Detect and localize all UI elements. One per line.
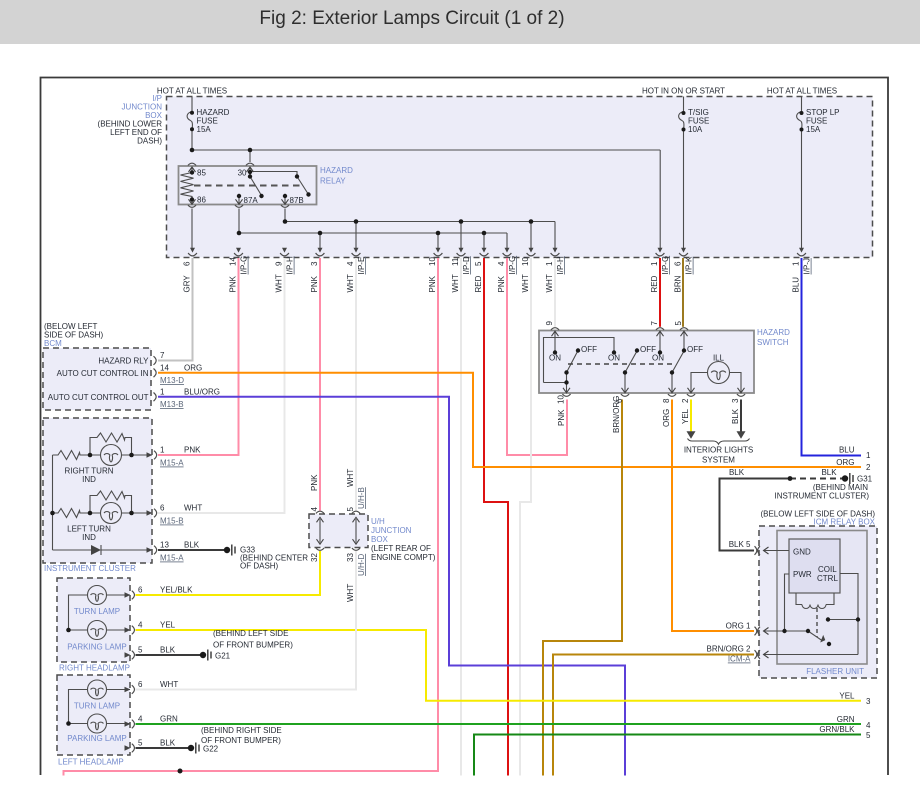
svg-text:OF DASH): OF DASH) bbox=[240, 562, 279, 571]
svg-text:6: 6 bbox=[138, 680, 143, 689]
svg-text:GRN: GRN bbox=[837, 715, 855, 724]
svg-text:6: 6 bbox=[160, 504, 165, 513]
svg-text:WHT: WHT bbox=[545, 274, 554, 292]
svg-text:HAZARD: HAZARD bbox=[320, 166, 353, 175]
svg-text:PARKING LAMP: PARKING LAMP bbox=[67, 734, 126, 743]
svg-text:1: 1 bbox=[160, 446, 165, 455]
svg-text:BLU: BLU bbox=[792, 277, 801, 293]
svg-text:BLK: BLK bbox=[184, 541, 200, 550]
svg-text:5: 5 bbox=[866, 731, 871, 740]
svg-text:GRN/BLK: GRN/BLK bbox=[819, 725, 855, 734]
svg-text:ILL: ILL bbox=[713, 354, 725, 363]
svg-text:85: 85 bbox=[197, 169, 206, 178]
svg-text:6: 6 bbox=[183, 261, 192, 266]
svg-text:I/P-E: I/P-E bbox=[357, 257, 366, 275]
svg-text:PNK: PNK bbox=[497, 275, 506, 292]
svg-text:15A: 15A bbox=[806, 125, 821, 134]
svg-text:RELAY: RELAY bbox=[320, 177, 346, 186]
svg-text:GND: GND bbox=[793, 548, 811, 557]
svg-text:LEFT HEADLAMP: LEFT HEADLAMP bbox=[58, 758, 124, 767]
svg-text:M15-B: M15-B bbox=[160, 517, 184, 526]
svg-text:ORG: ORG bbox=[836, 458, 854, 467]
svg-text:BCM: BCM bbox=[44, 339, 62, 348]
svg-text:10: 10 bbox=[557, 395, 566, 404]
svg-text:ORG 1: ORG 1 bbox=[726, 622, 751, 631]
svg-text:ENGINE COMPT): ENGINE COMPT) bbox=[371, 553, 436, 562]
svg-text:ORG: ORG bbox=[662, 409, 671, 427]
svg-text:WHT: WHT bbox=[521, 274, 530, 292]
svg-text:I/P-D: I/P-D bbox=[462, 256, 471, 274]
svg-text:6: 6 bbox=[138, 586, 143, 595]
svg-text:I/P-K: I/P-K bbox=[685, 256, 694, 274]
svg-text:AUTO CUT CONTROL OUT: AUTO CUT CONTROL OUT bbox=[48, 393, 149, 402]
svg-text:BOX: BOX bbox=[371, 535, 389, 544]
svg-text:HAZARD RLY: HAZARD RLY bbox=[98, 357, 149, 366]
svg-text:ON: ON bbox=[652, 354, 664, 363]
svg-text:I/P-H: I/P-H bbox=[286, 256, 295, 274]
svg-text:BLU: BLU bbox=[839, 446, 855, 455]
svg-text:WHT: WHT bbox=[346, 274, 355, 292]
svg-text:GRN: GRN bbox=[160, 715, 178, 724]
svg-text:OF FRONT BUMPER): OF FRONT BUMPER) bbox=[213, 641, 293, 650]
svg-text:GRY: GRY bbox=[183, 275, 192, 293]
svg-text:WHT: WHT bbox=[184, 504, 202, 513]
svg-text:3: 3 bbox=[310, 261, 319, 266]
svg-text:U/H-B: U/H-B bbox=[357, 487, 366, 509]
svg-text:8: 8 bbox=[662, 398, 671, 403]
svg-text:U/H-D: U/H-D bbox=[357, 554, 366, 576]
svg-text:WHT: WHT bbox=[275, 274, 284, 292]
svg-text:4: 4 bbox=[497, 261, 506, 266]
svg-text:COIL: COIL bbox=[818, 565, 837, 574]
svg-text:DASH): DASH) bbox=[137, 137, 162, 146]
svg-text:(BEHIND RIGHT SIDE: (BEHIND RIGHT SIDE bbox=[201, 726, 282, 735]
svg-text:5: 5 bbox=[474, 261, 483, 266]
svg-text:ICM-A: ICM-A bbox=[728, 655, 751, 664]
svg-text:5: 5 bbox=[138, 739, 143, 748]
svg-text:1: 1 bbox=[792, 261, 801, 266]
svg-text:BLK: BLK bbox=[821, 468, 837, 477]
svg-text:I/P-J: I/P-J bbox=[803, 258, 812, 274]
svg-text:5: 5 bbox=[674, 321, 683, 326]
svg-text:BRN/ORG 2: BRN/ORG 2 bbox=[706, 645, 751, 654]
svg-text:5: 5 bbox=[138, 646, 143, 655]
svg-text:PNK: PNK bbox=[184, 446, 201, 455]
svg-text:HOT AT ALL TIMES: HOT AT ALL TIMES bbox=[157, 87, 227, 96]
svg-text:INTERIOR LIGHTS: INTERIOR LIGHTS bbox=[684, 446, 753, 455]
svg-text:11: 11 bbox=[451, 257, 460, 266]
svg-text:BLK: BLK bbox=[160, 739, 176, 748]
svg-text:RED: RED bbox=[474, 275, 483, 292]
svg-text:TURN LAMP: TURN LAMP bbox=[74, 607, 120, 616]
svg-text:CTRL: CTRL bbox=[817, 574, 838, 583]
svg-text:BLK: BLK bbox=[160, 646, 176, 655]
svg-text:M15-A: M15-A bbox=[160, 459, 184, 468]
svg-text:YEL: YEL bbox=[839, 692, 855, 701]
svg-text:INSTRUMENT CLUSTER): INSTRUMENT CLUSTER) bbox=[774, 492, 869, 501]
svg-text:15A: 15A bbox=[197, 125, 212, 134]
svg-text:4: 4 bbox=[138, 621, 143, 630]
svg-text:4: 4 bbox=[138, 715, 143, 724]
svg-text:I/P-G: I/P-G bbox=[240, 256, 249, 275]
svg-text:SWITCH: SWITCH bbox=[757, 338, 789, 347]
svg-text:BRN: BRN bbox=[674, 275, 683, 292]
svg-text:30: 30 bbox=[238, 169, 247, 178]
svg-text:ON: ON bbox=[549, 354, 561, 363]
svg-text:3: 3 bbox=[866, 697, 871, 706]
svg-text:OFF: OFF bbox=[581, 345, 597, 354]
svg-text:PNK: PNK bbox=[557, 409, 566, 426]
svg-text:JUNCTION: JUNCTION bbox=[371, 526, 412, 535]
svg-text:BLK: BLK bbox=[729, 468, 745, 477]
svg-text:INSTRUMENT CLUSTER: INSTRUMENT CLUSTER bbox=[44, 564, 136, 573]
svg-text:WHT: WHT bbox=[346, 584, 355, 602]
svg-text:4: 4 bbox=[866, 721, 871, 730]
svg-text:RED: RED bbox=[650, 275, 659, 292]
svg-text:WHT: WHT bbox=[451, 274, 460, 292]
svg-text:PNK: PNK bbox=[428, 275, 437, 292]
svg-text:OFF: OFF bbox=[687, 345, 703, 354]
svg-text:9: 9 bbox=[545, 321, 554, 326]
svg-text:HOT IN ON OR START: HOT IN ON OR START bbox=[642, 87, 725, 96]
svg-text:M13-D: M13-D bbox=[160, 376, 184, 385]
svg-text:M13-B: M13-B bbox=[160, 400, 184, 409]
svg-text:PNK: PNK bbox=[310, 275, 319, 292]
svg-text:ICM RELAY BOX: ICM RELAY BOX bbox=[814, 518, 876, 527]
svg-text:1: 1 bbox=[650, 261, 659, 266]
svg-text:BLK: BLK bbox=[731, 408, 740, 424]
svg-text:G21: G21 bbox=[215, 652, 231, 661]
svg-text:1: 1 bbox=[160, 388, 165, 397]
svg-text:RIGHT HEADLAMP: RIGHT HEADLAMP bbox=[59, 664, 130, 673]
svg-text:U/H: U/H bbox=[371, 517, 385, 526]
svg-text:I/P-H: I/P-H bbox=[556, 256, 565, 274]
svg-text:14: 14 bbox=[229, 257, 238, 266]
svg-text:YEL: YEL bbox=[681, 408, 690, 424]
svg-text:87A: 87A bbox=[244, 196, 259, 205]
svg-text:PARKING LAMP: PARKING LAMP bbox=[67, 643, 126, 652]
svg-text:TURN LAMP: TURN LAMP bbox=[74, 702, 120, 711]
svg-text:SYSTEM: SYSTEM bbox=[702, 456, 735, 465]
svg-text:(LEFT REAR OF: (LEFT REAR OF bbox=[371, 544, 431, 553]
svg-text:4: 4 bbox=[310, 507, 319, 512]
svg-text:13: 13 bbox=[160, 541, 169, 550]
svg-text:32: 32 bbox=[310, 553, 319, 562]
svg-text:6: 6 bbox=[615, 398, 624, 403]
svg-text:PNK: PNK bbox=[229, 275, 238, 292]
svg-text:I/P-G: I/P-G bbox=[661, 256, 670, 275]
svg-text:2: 2 bbox=[681, 398, 690, 403]
svg-text:5: 5 bbox=[346, 507, 355, 512]
svg-text:4: 4 bbox=[346, 261, 355, 266]
svg-text:ORG: ORG bbox=[184, 364, 202, 373]
svg-text:FLASHER UNIT: FLASHER UNIT bbox=[806, 667, 864, 676]
svg-text:PNK: PNK bbox=[310, 474, 319, 491]
svg-text:33: 33 bbox=[346, 553, 355, 562]
svg-text:10: 10 bbox=[521, 257, 530, 266]
svg-text:1: 1 bbox=[866, 451, 871, 460]
svg-text:I/P-G: I/P-G bbox=[508, 256, 517, 275]
svg-text:BLU/ORG: BLU/ORG bbox=[184, 388, 220, 397]
svg-text:M15-A: M15-A bbox=[160, 554, 184, 563]
svg-text:86: 86 bbox=[197, 196, 206, 205]
svg-text:WHT: WHT bbox=[160, 680, 178, 689]
svg-text:G22: G22 bbox=[203, 745, 219, 754]
svg-text:10A: 10A bbox=[688, 125, 703, 134]
svg-text:(BEHIND LEFT SIDE: (BEHIND LEFT SIDE bbox=[213, 629, 288, 638]
svg-text:HOT AT ALL TIMES: HOT AT ALL TIMES bbox=[767, 87, 837, 96]
svg-text:IND: IND bbox=[82, 475, 96, 484]
svg-text:IND: IND bbox=[82, 533, 96, 542]
svg-text:YEL: YEL bbox=[160, 621, 176, 630]
svg-text:PWR: PWR bbox=[793, 570, 812, 579]
svg-text:WHT: WHT bbox=[346, 469, 355, 487]
svg-text:9: 9 bbox=[275, 261, 284, 266]
svg-text:HAZARD: HAZARD bbox=[757, 328, 790, 337]
svg-text:87B: 87B bbox=[290, 196, 304, 205]
svg-text:AUTO CUT CONTROL IN: AUTO CUT CONTROL IN bbox=[57, 369, 149, 378]
svg-text:3: 3 bbox=[731, 398, 740, 403]
svg-text:14: 14 bbox=[160, 364, 169, 373]
svg-text:10: 10 bbox=[428, 257, 437, 266]
svg-text:1: 1 bbox=[545, 261, 554, 266]
svg-text:7: 7 bbox=[650, 321, 659, 326]
svg-text:2: 2 bbox=[866, 463, 871, 472]
svg-text:BLK 5: BLK 5 bbox=[729, 540, 751, 549]
svg-text:ON: ON bbox=[608, 354, 620, 363]
svg-text:YEL/BLK: YEL/BLK bbox=[160, 586, 193, 595]
svg-text:6: 6 bbox=[674, 261, 683, 266]
svg-text:7: 7 bbox=[160, 351, 165, 360]
